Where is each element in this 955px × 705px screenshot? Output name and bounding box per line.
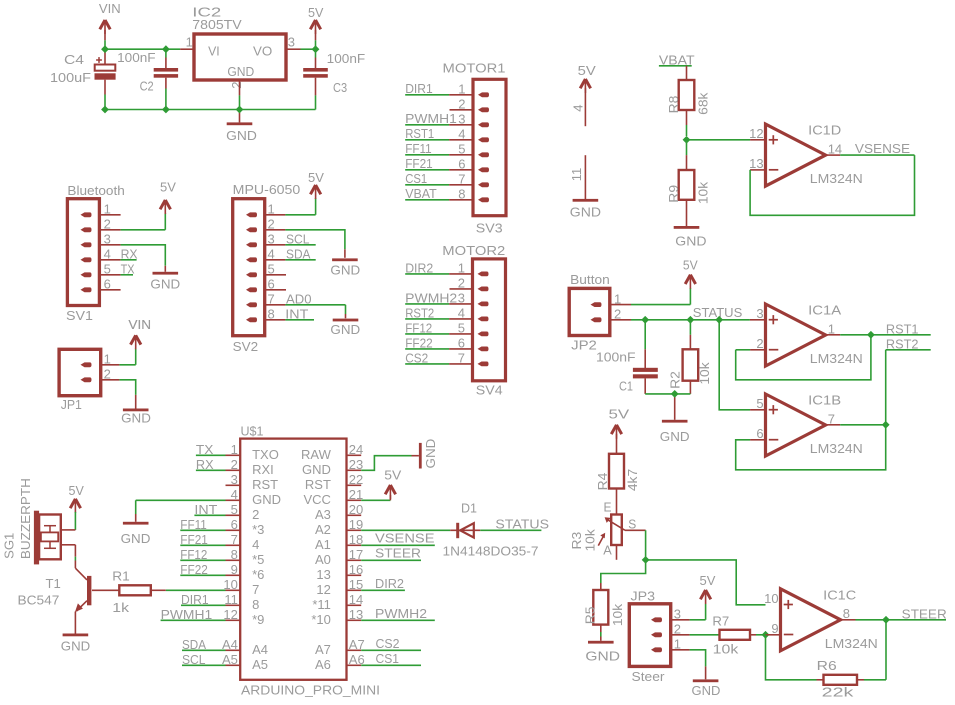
svg-text:TXO: TXO — [252, 447, 279, 462]
svg-text:10: 10 — [764, 591, 778, 606]
svg-text:A6: A6 — [315, 657, 331, 672]
svg-text:GND: GND — [675, 233, 706, 248]
svg-text:C2: C2 — [140, 78, 154, 93]
svg-text:2: 2 — [231, 457, 238, 472]
svg-text:GND: GND — [121, 531, 151, 546]
svg-text:STATUS: STATUS — [495, 517, 549, 532]
svg-text:R4: R4 — [595, 473, 610, 491]
svg-text:PWMH2: PWMH2 — [405, 290, 457, 305]
svg-text:13: 13 — [316, 567, 330, 582]
svg-text:5V: 5V — [308, 5, 324, 20]
svg-text:BC547: BC547 — [18, 592, 60, 607]
svg-text:A: A — [603, 542, 612, 557]
svg-text:5V: 5V — [160, 180, 176, 195]
svg-text:*5: *5 — [252, 552, 264, 567]
svg-text:IC1A: IC1A — [808, 303, 841, 318]
svg-text:IC1D: IC1D — [808, 123, 841, 138]
svg-text:GND: GND — [150, 277, 180, 292]
svg-text:MOTOR1: MOTOR1 — [443, 61, 506, 76]
svg-text:12: 12 — [749, 126, 763, 141]
svg-text:R8: R8 — [666, 96, 681, 114]
svg-text:A4: A4 — [252, 642, 268, 657]
svg-text:GND: GND — [61, 639, 90, 654]
svg-text:R5: R5 — [582, 607, 597, 625]
svg-text:VCC: VCC — [303, 492, 330, 507]
svg-text:2: 2 — [252, 507, 259, 522]
svg-text:CS1: CS1 — [405, 171, 427, 186]
svg-text:SV4: SV4 — [476, 383, 503, 398]
svg-text:ARDUINO_PRO_MINI: ARDUINO_PRO_MINI — [241, 683, 380, 698]
svg-text:VBAT: VBAT — [405, 186, 437, 201]
svg-text:10k: 10k — [582, 529, 597, 552]
svg-text:5: 5 — [756, 396, 763, 411]
svg-text:17: 17 — [349, 547, 363, 562]
svg-text:6: 6 — [756, 426, 763, 441]
svg-text:RST: RST — [305, 477, 331, 492]
svg-text:2: 2 — [756, 336, 763, 351]
svg-text:3: 3 — [231, 472, 238, 487]
svg-text:E: E — [604, 500, 612, 515]
svg-text:GND: GND — [121, 410, 151, 425]
svg-text:R9: R9 — [666, 185, 681, 203]
svg-text:4: 4 — [231, 487, 238, 502]
svg-text:STEER: STEER — [902, 607, 947, 622]
svg-text:5V: 5V — [609, 407, 630, 422]
svg-text:VIN: VIN — [99, 1, 121, 16]
svg-text:11: 11 — [569, 168, 584, 182]
svg-text:GND: GND — [585, 649, 620, 664]
svg-text:1N4148DO35-7: 1N4148DO35-7 — [443, 544, 539, 559]
svg-text:FF12: FF12 — [405, 320, 432, 335]
svg-text:JP1: JP1 — [61, 397, 82, 412]
svg-text:RXI: RXI — [252, 462, 274, 477]
svg-text:GND: GND — [227, 64, 254, 79]
svg-text:7: 7 — [231, 532, 238, 547]
svg-text:IC1B: IC1B — [808, 393, 841, 408]
svg-text:12: 12 — [223, 607, 237, 622]
svg-text:RST2: RST2 — [405, 305, 434, 320]
svg-text:R6: R6 — [817, 658, 837, 673]
svg-text:GND: GND — [330, 322, 360, 337]
svg-text:*10: *10 — [311, 612, 331, 627]
svg-text:22k: 22k — [822, 685, 854, 700]
svg-text:12: 12 — [316, 582, 330, 597]
svg-text:Steer: Steer — [632, 669, 666, 684]
svg-text:14: 14 — [828, 142, 842, 157]
svg-text:GND: GND — [252, 492, 281, 507]
svg-text:RST1: RST1 — [886, 322, 919, 337]
svg-text:JP3: JP3 — [631, 589, 656, 604]
svg-text:11: 11 — [224, 592, 238, 607]
svg-text:9: 9 — [771, 621, 778, 636]
svg-text:19: 19 — [349, 517, 363, 532]
svg-text:100uF: 100uF — [50, 70, 91, 85]
svg-text:5V: 5V — [308, 170, 324, 185]
svg-text:23: 23 — [349, 457, 363, 472]
svg-text:BUZZERPTH: BUZZERPTH — [18, 478, 33, 559]
svg-text:VSENSE: VSENSE — [855, 141, 911, 156]
svg-text:C1: C1 — [619, 379, 633, 394]
svg-text:5: 5 — [231, 502, 238, 517]
svg-text:13: 13 — [749, 156, 763, 171]
svg-text:GND: GND — [423, 439, 438, 469]
svg-text:13: 13 — [349, 607, 363, 622]
svg-text:9: 9 — [231, 562, 238, 577]
svg-text:22: 22 — [349, 472, 363, 487]
svg-text:21: 21 — [349, 487, 363, 502]
svg-text:PWMH1: PWMH1 — [405, 111, 457, 126]
svg-text:8: 8 — [252, 597, 259, 612]
svg-text:10k: 10k — [713, 641, 739, 656]
svg-text:VI: VI — [208, 44, 220, 59]
svg-text:RST: RST — [252, 477, 278, 492]
svg-text:Button: Button — [570, 272, 610, 287]
svg-text:U$1: U$1 — [241, 424, 264, 439]
svg-text:MPU-6050: MPU-6050 — [233, 182, 301, 197]
svg-text:IC1C: IC1C — [823, 587, 856, 602]
svg-text:R1: R1 — [112, 568, 130, 583]
svg-text:*3: *3 — [252, 522, 264, 537]
svg-text:A7: A7 — [315, 642, 331, 657]
svg-text:7: 7 — [252, 582, 259, 597]
svg-text:5V: 5V — [578, 63, 596, 78]
svg-text:5V: 5V — [384, 468, 401, 483]
svg-text:8: 8 — [231, 547, 238, 562]
svg-text:R7: R7 — [712, 613, 729, 628]
svg-text:4k7: 4k7 — [625, 469, 640, 491]
svg-text:100nF: 100nF — [117, 50, 156, 65]
svg-text:68k: 68k — [696, 92, 711, 115]
svg-text:RST1: RST1 — [405, 126, 434, 141]
svg-text:A2: A2 — [315, 522, 331, 537]
svg-text:A1: A1 — [315, 537, 331, 552]
svg-text:SDA: SDA — [286, 247, 311, 262]
svg-text:T1: T1 — [46, 576, 61, 591]
svg-text:LM324N: LM324N — [810, 441, 863, 456]
svg-text:GND: GND — [570, 204, 601, 219]
svg-text:A5: A5 — [252, 657, 268, 672]
svg-text:CS1: CS1 — [376, 651, 400, 666]
svg-text:100nF: 100nF — [596, 349, 636, 364]
svg-text:10k: 10k — [697, 362, 712, 385]
svg-text:GND: GND — [330, 263, 360, 278]
svg-text:SG1: SG1 — [2, 533, 17, 559]
svg-text:D1: D1 — [461, 501, 477, 516]
svg-text:LM324N: LM324N — [810, 171, 863, 186]
svg-text:1: 1 — [186, 35, 193, 50]
svg-text:8: 8 — [843, 606, 850, 621]
svg-text:STEER: STEER — [375, 546, 421, 561]
svg-text:5V: 5V — [69, 483, 85, 498]
svg-text:5V: 5V — [700, 573, 716, 588]
svg-text:DIR1: DIR1 — [405, 81, 433, 96]
svg-text:GND: GND — [692, 683, 721, 698]
svg-text:FF11: FF11 — [405, 141, 432, 156]
svg-text:GND: GND — [302, 462, 331, 477]
svg-text:RX: RX — [121, 246, 138, 261]
svg-text:SCL: SCL — [286, 232, 310, 247]
svg-text:18: 18 — [349, 532, 363, 547]
svg-text:FF22: FF22 — [405, 335, 433, 350]
svg-text:3: 3 — [288, 35, 295, 50]
svg-text:SV1: SV1 — [66, 308, 93, 323]
svg-text:LM324N: LM324N — [825, 636, 878, 651]
svg-text:FF21: FF21 — [405, 156, 433, 171]
svg-text:14: 14 — [349, 592, 363, 607]
svg-text:CS2: CS2 — [376, 636, 400, 651]
svg-text:LM324N: LM324N — [810, 351, 863, 366]
svg-text:15: 15 — [349, 577, 363, 592]
svg-text:10k: 10k — [696, 181, 711, 204]
svg-text:3: 3 — [756, 306, 763, 321]
svg-text:MOTOR2: MOTOR2 — [442, 243, 505, 258]
svg-text:RAW: RAW — [301, 447, 332, 462]
svg-text:Bluetooth: Bluetooth — [67, 183, 124, 198]
svg-text:GND: GND — [226, 128, 257, 143]
svg-text:S: S — [628, 516, 636, 531]
svg-text:R2: R2 — [667, 371, 682, 389]
svg-text:20: 20 — [349, 502, 363, 517]
svg-text:10k: 10k — [610, 603, 625, 626]
svg-text:*9: *9 — [252, 612, 264, 627]
svg-text:16: 16 — [349, 562, 363, 577]
svg-text:VSENSE: VSENSE — [375, 531, 435, 546]
svg-text:GND: GND — [660, 429, 690, 444]
svg-text:AD0: AD0 — [286, 292, 312, 307]
svg-text:VO: VO — [253, 44, 272, 59]
svg-text:INT: INT — [285, 307, 308, 322]
svg-text:A0: A0 — [315, 552, 331, 567]
svg-text:1k: 1k — [112, 600, 129, 615]
svg-text:JP2: JP2 — [571, 337, 597, 352]
svg-text:10: 10 — [223, 577, 237, 592]
svg-text:DIR2: DIR2 — [375, 576, 404, 591]
svg-text:24: 24 — [349, 442, 363, 457]
svg-text:PWMH2: PWMH2 — [375, 606, 427, 621]
svg-text:4: 4 — [252, 537, 259, 552]
svg-text:TX: TX — [121, 261, 135, 276]
svg-text:4: 4 — [570, 104, 585, 111]
svg-text:CS2: CS2 — [405, 350, 428, 365]
svg-text:SV2: SV2 — [233, 339, 258, 354]
svg-text:7805TV: 7805TV — [192, 17, 242, 32]
svg-text:SV3: SV3 — [476, 221, 503, 236]
svg-text:C4: C4 — [64, 52, 84, 67]
svg-text:*11: *11 — [312, 597, 331, 612]
svg-text:2: 2 — [229, 82, 244, 89]
svg-text:*6: *6 — [252, 567, 264, 582]
svg-text:C3: C3 — [333, 80, 347, 95]
svg-text:100nF: 100nF — [327, 51, 366, 66]
svg-text:1: 1 — [231, 442, 238, 457]
svg-text:A3: A3 — [315, 507, 331, 522]
svg-text:VIN: VIN — [128, 317, 151, 332]
svg-text:6: 6 — [231, 517, 238, 532]
svg-text:DIR2: DIR2 — [405, 260, 433, 275]
svg-text:5V: 5V — [683, 257, 698, 272]
